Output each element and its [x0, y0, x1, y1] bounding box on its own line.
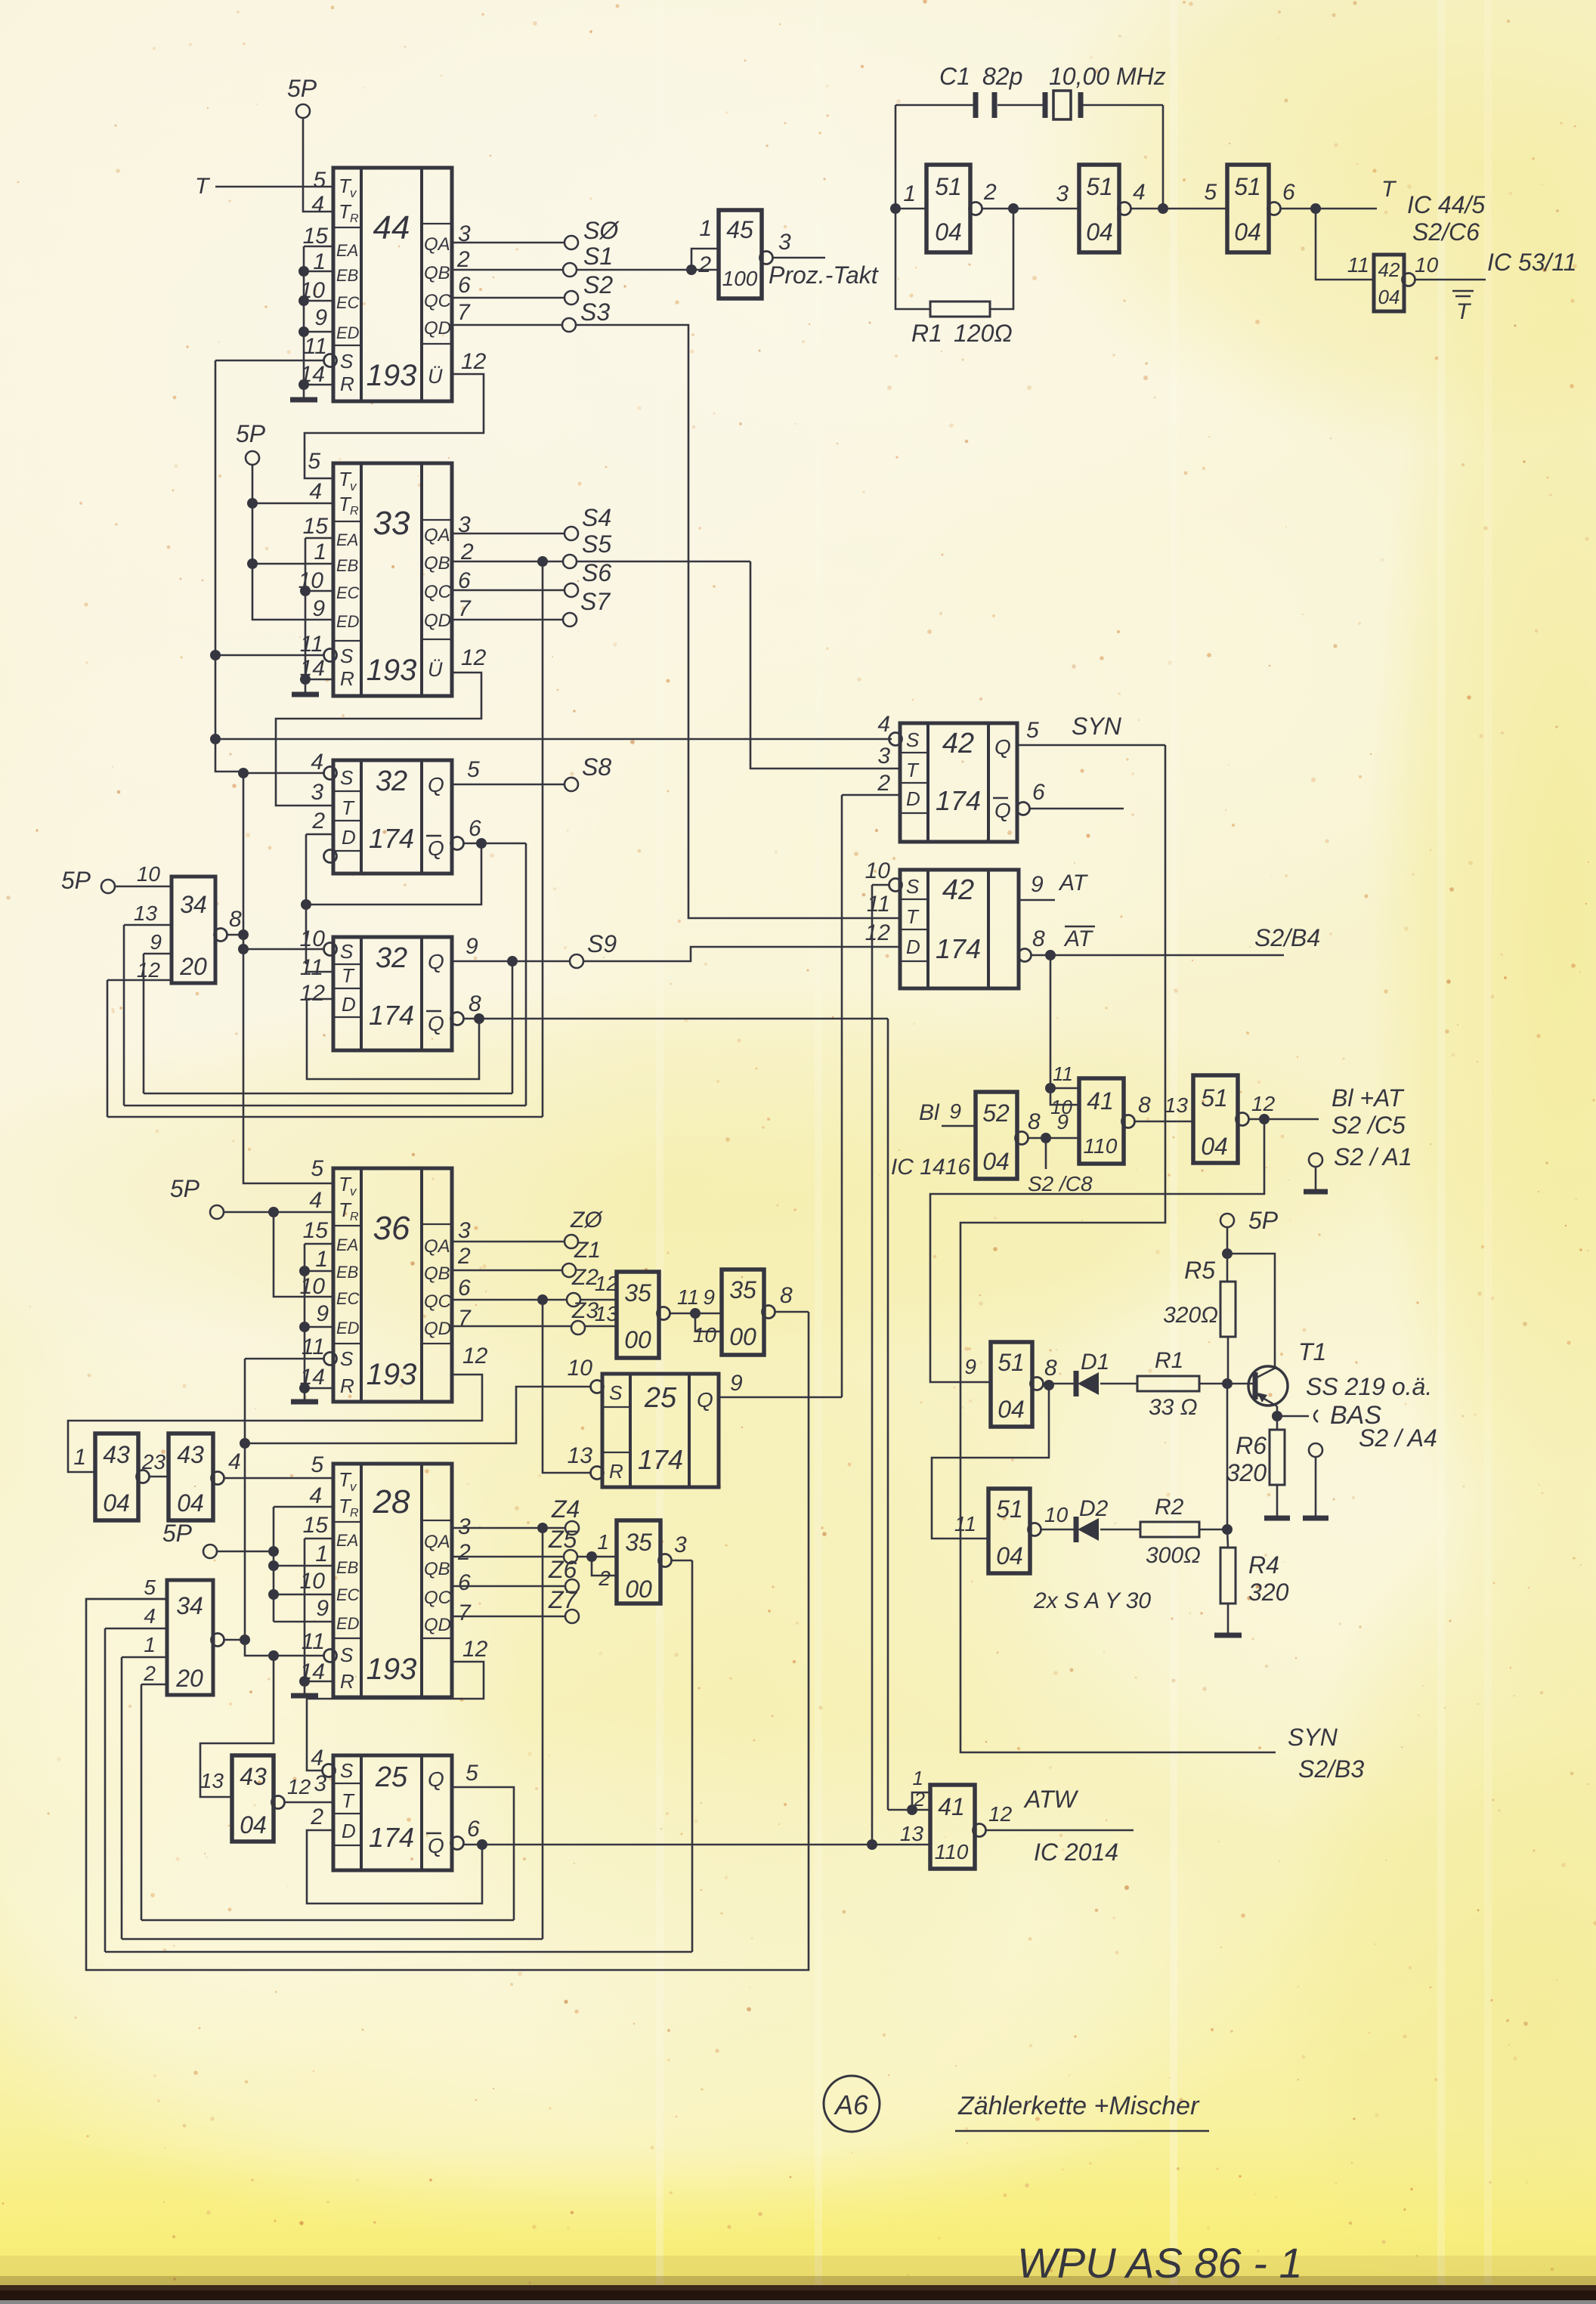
svg-text:S2/B4: S2/B4 — [1254, 924, 1320, 951]
junction dot base node — [1222, 1378, 1233, 1389]
wire feedback h3 S5 — [107, 1116, 543, 1118]
svg-text:04: 04 — [982, 1148, 1010, 1175]
svg-text:43: 43 — [240, 1763, 267, 1790]
flip-flop U32a DL174 — [311, 750, 452, 874]
wire 32-2 S pin10 — [243, 948, 325, 951]
resistor R6 320 — [1270, 1430, 1285, 1485]
flip-flop U42b DL174 AT — [865, 858, 1019, 988]
terminal S8 — [564, 778, 578, 791]
svg-text:IC 1416: IC 1416 — [891, 1155, 970, 1180]
wire IC28 carry U12 to 25-2 S — [307, 1662, 484, 1771]
wire IC44 carry U pin12 to IC33 Tv — [305, 374, 484, 478]
svg-text:10: 10 — [1044, 1503, 1069, 1526]
wire 32-1 D loop — [305, 834, 308, 964]
wire 5P4 in — [217, 1551, 274, 1553]
svg-text:QB: QB — [424, 1263, 450, 1284]
wire 41a pins 11 10 bracket — [1050, 1087, 1079, 1090]
junction dot S-net at 32-1 — [238, 768, 249, 778]
svg-text:4: 4 — [144, 1604, 156, 1628]
resistor R5 320ohm — [1220, 1282, 1236, 1337]
svg-text:QC: QC — [424, 291, 452, 311]
svg-text:04: 04 — [1201, 1133, 1228, 1160]
wire Q9 feedback down — [512, 961, 514, 1093]
svg-text:1: 1 — [913, 1767, 923, 1789]
svg-text:S1: S1 — [583, 243, 613, 270]
svg-text:110: 110 — [1084, 1134, 1118, 1158]
svg-text:8: 8 — [1032, 926, 1045, 951]
svg-text:Bl: Bl — [919, 1100, 940, 1125]
svg-text:11: 11 — [1053, 1062, 1073, 1085]
wire QD to S3 long — [452, 324, 562, 326]
svg-text:EB: EB — [336, 266, 358, 285]
wire IC33 S pin11 — [215, 654, 325, 657]
svg-text:D: D — [342, 993, 356, 1016]
terminal S7 — [563, 613, 577, 626]
wire QC to S6 — [452, 589, 564, 592]
wire IC33 carry U pin12 to 32-1 T — [276, 673, 481, 806]
svg-text:12: 12 — [461, 645, 487, 670]
wire D1 to R1 — [1100, 1383, 1137, 1385]
svg-text:3: 3 — [877, 744, 890, 769]
svg-text:9: 9 — [703, 1285, 715, 1309]
wire QB to Z1 — [452, 1270, 562, 1272]
svg-text:04: 04 — [998, 1396, 1025, 1423]
wire IC36 carry U12 to 43-1 — [68, 1375, 482, 1472]
svg-text:10: 10 — [865, 858, 891, 883]
svg-text:6: 6 — [458, 273, 471, 298]
wire 34-2 pin2 vert — [141, 1684, 143, 1920]
junction dots IC36 gnd — [299, 1266, 310, 1276]
junction dot 35b in — [690, 1308, 701, 1319]
svg-text:5P: 5P — [162, 1520, 193, 1547]
svg-text:QD: QD — [424, 318, 451, 339]
ground IC36 — [291, 1399, 318, 1405]
capacitor C1 82p — [973, 92, 979, 118]
svg-text:R: R — [350, 1211, 359, 1223]
wire IC44 ground bus EA-EB-EC-ED-R — [303, 246, 305, 398]
svg-text:Bl +AT: Bl +AT — [1332, 1084, 1405, 1112]
terminal S2/A1 — [1309, 1153, 1322, 1167]
wire IC28 S pin11 — [245, 1640, 325, 1656]
svg-text:3: 3 — [458, 1218, 471, 1243]
svg-text:8: 8 — [780, 1283, 793, 1308]
svg-text:5P: 5P — [287, 75, 317, 102]
svg-text:S: S — [340, 1759, 354, 1782]
svg-text:15: 15 — [303, 224, 329, 249]
svg-text:EC: EC — [336, 1585, 360, 1604]
svg-text:35: 35 — [624, 1279, 651, 1307]
wire 45 pin1-pin2 bracket — [691, 249, 719, 270]
junction dot osc mid node — [1008, 203, 1019, 214]
svg-text:QC: QC — [424, 582, 452, 602]
terminal S5 — [563, 555, 577, 568]
svg-text:S: S — [906, 728, 920, 751]
svg-text:9: 9 — [316, 1596, 329, 1621]
junction dot IC28 gnd R — [299, 1676, 310, 1687]
svg-text:WPU AS 86 - 1: WPU AS 86 - 1 — [1017, 2239, 1303, 2287]
svg-text:T: T — [342, 964, 355, 987]
wire to 25-1 S — [245, 1387, 592, 1443]
wire 34-1 pin9 vert — [143, 954, 145, 1093]
wire S net to 43-3 input — [200, 1656, 274, 1797]
svg-text:6: 6 — [467, 1817, 480, 1842]
wire S2C8 stub — [1045, 1138, 1047, 1169]
svg-text:QC: QC — [424, 1588, 452, 1608]
wire Bl input pin9 — [942, 1125, 976, 1127]
svg-text:EC: EC — [336, 293, 360, 312]
svg-text:42: 42 — [942, 728, 974, 759]
svg-text:T: T — [342, 1789, 355, 1812]
svg-text:D: D — [906, 936, 920, 958]
terminal 5P mixer — [1220, 1214, 1234, 1227]
svg-text:43: 43 — [103, 1441, 130, 1468]
svg-text:13: 13 — [568, 1443, 593, 1468]
wire mid node to inv2 pin3 — [1013, 208, 1079, 210]
junction dot 32-1 loop — [301, 899, 311, 910]
svg-text:2: 2 — [311, 809, 325, 833]
wire 5P to collector node — [1226, 1227, 1229, 1254]
svg-text:04: 04 — [177, 1489, 204, 1517]
terminal Z4 — [565, 1521, 579, 1535]
terminal Z7 — [565, 1610, 579, 1623]
wire T node to T label — [1316, 208, 1377, 210]
svg-text:S: S — [340, 350, 354, 373]
svg-text:5: 5 — [308, 449, 320, 474]
gate U35a DL00 — [617, 1272, 659, 1358]
svg-text:S7: S7 — [580, 588, 611, 615]
wire SYN vertical — [960, 745, 1276, 1752]
svg-text:00: 00 — [624, 1326, 651, 1353]
wire IC36 S pin11 — [245, 1358, 325, 1360]
svg-text:9: 9 — [730, 1371, 743, 1396]
svg-text:5: 5 — [466, 1761, 478, 1786]
terminal S9 — [570, 954, 583, 968]
wire S-net spine upper — [215, 360, 333, 1183]
svg-text:4: 4 — [877, 712, 890, 737]
wire S2A1 gnd stem — [1315, 1167, 1317, 1190]
gate 35a output pin11 — [657, 1307, 670, 1320]
svg-text:174: 174 — [936, 933, 981, 964]
svg-text:5: 5 — [311, 1452, 323, 1477]
svg-text:S: S — [340, 1644, 354, 1666]
svg-text:2: 2 — [697, 252, 711, 277]
svg-text:T: T — [1456, 299, 1472, 324]
wire Z2 to 25-1 R — [543, 1300, 592, 1473]
ground R4 — [1214, 1633, 1242, 1638]
svg-text:SØ: SØ — [583, 217, 620, 244]
svg-text:Q: Q — [428, 950, 444, 973]
wire feedback h1 Q9 — [144, 1093, 512, 1095]
wire 34-2 pin5 — [86, 1598, 167, 1600]
svg-text:C1: C1 — [939, 63, 970, 90]
svg-text:D: D — [906, 787, 920, 810]
svg-text:9: 9 — [312, 596, 325, 621]
svg-text:5: 5 — [313, 168, 326, 193]
svg-text:7: 7 — [457, 300, 471, 325]
svg-text:2: 2 — [143, 1662, 156, 1685]
resistor R2 300ohm — [1140, 1522, 1199, 1537]
inverter 51d output pin12 — [1236, 1113, 1249, 1126]
svg-text:R: R — [350, 1507, 359, 1520]
wire 45 output pin3 Proz-Takt — [760, 252, 773, 264]
wire 42-2 Qbar pin8 ATbar — [1019, 949, 1032, 962]
svg-text:SYN: SYN — [1072, 713, 1122, 740]
svg-text:EB: EB — [336, 1558, 358, 1577]
svg-text:QA: QA — [424, 525, 450, 546]
wire Z4 feedback — [542, 1528, 544, 1939]
terminal Z1 — [562, 1263, 576, 1277]
svg-text:2: 2 — [456, 247, 470, 272]
svg-text:13: 13 — [1165, 1093, 1189, 1117]
svg-text:R: R — [609, 1460, 623, 1483]
junction dot S5 feedback — [537, 556, 548, 567]
junction dot 25-2 Qbar — [477, 1839, 487, 1850]
wire 32-1 loop bottom — [306, 843, 481, 905]
svg-text:4: 4 — [311, 192, 324, 217]
svg-text:9: 9 — [314, 305, 327, 330]
label ATbar — [1065, 926, 1095, 928]
svg-text:51: 51 — [996, 1495, 1023, 1523]
wire 25-2 Q pin5 feedback — [452, 1787, 514, 1920]
wire 42-1 D from 25-1 Q — [841, 795, 843, 1397]
wire 32-1 Q pin5 to S8 — [452, 784, 564, 786]
inverter U51d 04 BL+AT — [1193, 1075, 1238, 1163]
svg-text:R: R — [350, 505, 359, 518]
junction dot spine2 25-1S — [240, 1438, 250, 1449]
wire R1 right up to mid node — [990, 209, 1013, 309]
diode D1 — [1078, 1372, 1099, 1395]
wire 32-1 S pin4 — [243, 772, 325, 775]
svg-text:ED: ED — [336, 323, 360, 342]
wire R1 to base — [1199, 1383, 1227, 1385]
wire 32-1 D pin2 node — [306, 833, 333, 836]
svg-text:320Ω: 320Ω — [1163, 1303, 1218, 1328]
crystal Q1 10.00 MHz — [1043, 92, 1048, 118]
svg-text:S: S — [609, 1381, 623, 1404]
svg-text:2x S A Y 30: 2x S A Y 30 — [1033, 1588, 1151, 1613]
svg-text:00: 00 — [729, 1323, 756, 1350]
inverter U52 output pin8 — [1016, 1132, 1028, 1145]
terminal S6 — [564, 583, 578, 597]
svg-text:25: 25 — [375, 1761, 408, 1793]
svg-text:174: 174 — [369, 1822, 414, 1853]
wire 34-2 pin1 vert — [121, 1657, 123, 1939]
junction dot T node — [1310, 203, 1321, 214]
junction dot 32-2 Qbar — [474, 1013, 484, 1024]
wire 35-3 pin2 bracket — [592, 1557, 617, 1576]
junction dot 32-1 Qbar — [476, 838, 487, 849]
inverter U51b 04 — [1079, 165, 1119, 252]
svg-text:EC: EC — [336, 583, 360, 602]
terminal Z0 — [564, 1235, 578, 1248]
junction dot emitter — [1272, 1411, 1282, 1421]
svg-text:T: T — [906, 905, 920, 928]
svg-text:20: 20 — [175, 1665, 203, 1692]
inverter U51a output pin2 — [970, 203, 982, 215]
ground IC33 — [292, 692, 319, 697]
svg-text:12: 12 — [287, 1775, 311, 1798]
wire 34-1 pin12 — [107, 979, 172, 982]
svg-text:9: 9 — [316, 1301, 329, 1326]
svg-text:AT: AT — [1058, 871, 1089, 895]
svg-text:1: 1 — [315, 1542, 328, 1566]
svg-text:2: 2 — [983, 180, 997, 205]
wire QD to Z7 — [452, 1616, 565, 1618]
svg-text:3: 3 — [674, 1532, 687, 1557]
svg-text:T1: T1 — [1298, 1338, 1326, 1365]
svg-text:10: 10 — [300, 1569, 326, 1594]
inverter U43b — [169, 1433, 213, 1520]
svg-text:51: 51 — [1201, 1084, 1228, 1112]
svg-text:12: 12 — [461, 349, 487, 374]
ground IC44 — [290, 397, 317, 403]
svg-text:S2: S2 — [583, 271, 613, 298]
svg-text:13: 13 — [200, 1769, 224, 1792]
inverter U43a — [95, 1433, 138, 1520]
svg-text:SYN: SYN — [1288, 1724, 1338, 1751]
svg-text:15: 15 — [303, 1218, 329, 1243]
wire T node down to inverter 42 — [1316, 209, 1374, 280]
svg-text:20: 20 — [179, 953, 207, 980]
junction dot Q9 feedback — [507, 956, 518, 966]
svg-text:04: 04 — [240, 1811, 267, 1839]
svg-text:3: 3 — [311, 780, 323, 805]
svg-text:QD: QD — [424, 1319, 451, 1339]
label Tbar net — [1452, 290, 1474, 292]
wire 25-1 S pin10 — [591, 1381, 604, 1393]
resistor R1 120 ohm — [930, 302, 990, 317]
svg-text:IC 53/11: IC 53/11 — [1487, 249, 1577, 276]
terminal S1 — [563, 263, 577, 277]
svg-text:R4: R4 — [1248, 1551, 1279, 1579]
svg-text:41: 41 — [938, 1793, 965, 1820]
svg-text:4: 4 — [311, 1746, 323, 1771]
wire 42-2 S pin10 — [889, 879, 902, 892]
svg-text:10,00 MHz: 10,00 MHz — [1049, 63, 1166, 90]
svg-text:EB: EB — [336, 556, 358, 575]
wire 25-1 Q pin9 to 42-1 D — [719, 1396, 842, 1399]
svg-text:320: 320 — [1226, 1459, 1267, 1486]
wire mixer1 out to mixer2 in — [932, 1385, 1049, 1539]
wire R1 left — [895, 306, 930, 309]
wire feedback h5 Z4 — [122, 1938, 543, 1941]
svg-text:1: 1 — [699, 216, 712, 241]
svg-text:S2 / A1: S2 / A1 — [1334, 1143, 1412, 1171]
svg-text:IC 2014: IC 2014 — [1034, 1839, 1118, 1866]
svg-text:10: 10 — [1415, 253, 1439, 277]
svg-text:QB: QB — [424, 263, 450, 283]
svg-text:2: 2 — [598, 1566, 611, 1590]
junction dots 5P4 bus — [268, 1546, 279, 1557]
wire QD to Z3 and 35-1 pin13 — [452, 1325, 571, 1328]
svg-text:S4: S4 — [582, 504, 611, 531]
wire emitter down — [1276, 1406, 1279, 1416]
svg-text:10: 10 — [693, 1323, 717, 1347]
wire QB to S5 — [452, 561, 563, 563]
svg-text:S3: S3 — [580, 298, 610, 326]
svg-text:QB: QB — [424, 553, 450, 574]
terminal 5P #1 — [296, 104, 310, 118]
svg-text:QB: QB — [424, 1559, 450, 1579]
svg-text:Proz.-Takt: Proz.-Takt — [769, 261, 879, 289]
inverter 43a output — [137, 1471, 150, 1483]
wire S-net spine lower — [244, 1359, 246, 1640]
wire 35b out feedback — [86, 1312, 809, 1970]
svg-text:S: S — [906, 875, 920, 898]
IC U36 counter DL193 #3 — [300, 1156, 488, 1402]
svg-text:10: 10 — [300, 1274, 326, 1299]
svg-text:04: 04 — [103, 1489, 130, 1517]
wire 32-2 D pin12 loop — [307, 999, 479, 1079]
terminal Z5 — [564, 1550, 577, 1563]
svg-text:4: 4 — [309, 1483, 322, 1508]
svg-text:Q: Q — [428, 837, 444, 860]
svg-text:11: 11 — [867, 892, 890, 917]
terminal S2A4 — [1309, 1443, 1322, 1457]
svg-text:ATW: ATW — [1023, 1786, 1079, 1813]
wire crystal right leg — [1162, 105, 1165, 209]
svg-text:ED: ED — [336, 612, 360, 631]
svg-text:T: T — [1381, 177, 1397, 202]
wire QA to S4 — [452, 533, 564, 535]
svg-text:4: 4 — [309, 1188, 322, 1213]
junction dot S2C8 stub — [1041, 1133, 1051, 1143]
svg-text:28: 28 — [373, 1483, 410, 1520]
svg-text:T: T — [195, 174, 211, 199]
wire QB to Z5 and 35-3 — [452, 1556, 564, 1558]
wire R4 top — [1227, 1529, 1228, 1548]
svg-text:100: 100 — [722, 267, 758, 290]
wire 35c out feedback — [691, 1560, 694, 1952]
svg-text:193: 193 — [367, 654, 417, 687]
svg-text:2: 2 — [877, 771, 890, 796]
svg-text:5: 5 — [144, 1576, 156, 1599]
svg-text:2: 2 — [457, 1540, 471, 1565]
junction dot Z4 — [537, 1523, 548, 1533]
wire S2A4 stem — [1315, 1457, 1317, 1517]
terminal Z6 — [565, 1579, 579, 1593]
svg-text:Ü: Ü — [428, 365, 443, 388]
svg-text:Q: Q — [428, 1834, 444, 1857]
svg-text:3: 3 — [458, 1514, 471, 1539]
svg-text:120Ω: 120Ω — [954, 320, 1013, 347]
svg-text:04: 04 — [996, 1542, 1023, 1570]
svg-text:7: 7 — [458, 1600, 472, 1625]
wire 5P2 bus TR EB ED — [252, 465, 333, 620]
svg-text:12: 12 — [462, 1637, 488, 1662]
svg-text:Ü: Ü — [428, 658, 443, 681]
svg-text:ED: ED — [336, 1319, 360, 1338]
wire R6 top — [1276, 1416, 1279, 1430]
wire BL+AT feedback to mixer1 — [930, 1119, 1264, 1382]
svg-text:T: T — [906, 759, 920, 781]
gate U34a DL20 — [172, 877, 215, 983]
wire IC28 gnd bus — [304, 1539, 306, 1694]
svg-text:EA: EA — [336, 530, 358, 549]
line title underline — [955, 2130, 1209, 2132]
gate 34-2 output — [212, 1634, 224, 1647]
wire 5P3 to TR and EC — [224, 1211, 333, 1214]
svg-text:QA: QA — [424, 234, 450, 255]
wire 35b pin10 bracket — [695, 1313, 722, 1331]
terminal 5P #34a — [101, 880, 115, 893]
wire 42-1 D pin2 — [842, 794, 900, 796]
svg-text:32: 32 — [376, 942, 407, 974]
svg-text:5: 5 — [1026, 718, 1039, 743]
svg-text:174: 174 — [638, 1444, 683, 1475]
wire R6 bottom — [1276, 1485, 1279, 1517]
svg-text:04: 04 — [1378, 286, 1400, 308]
